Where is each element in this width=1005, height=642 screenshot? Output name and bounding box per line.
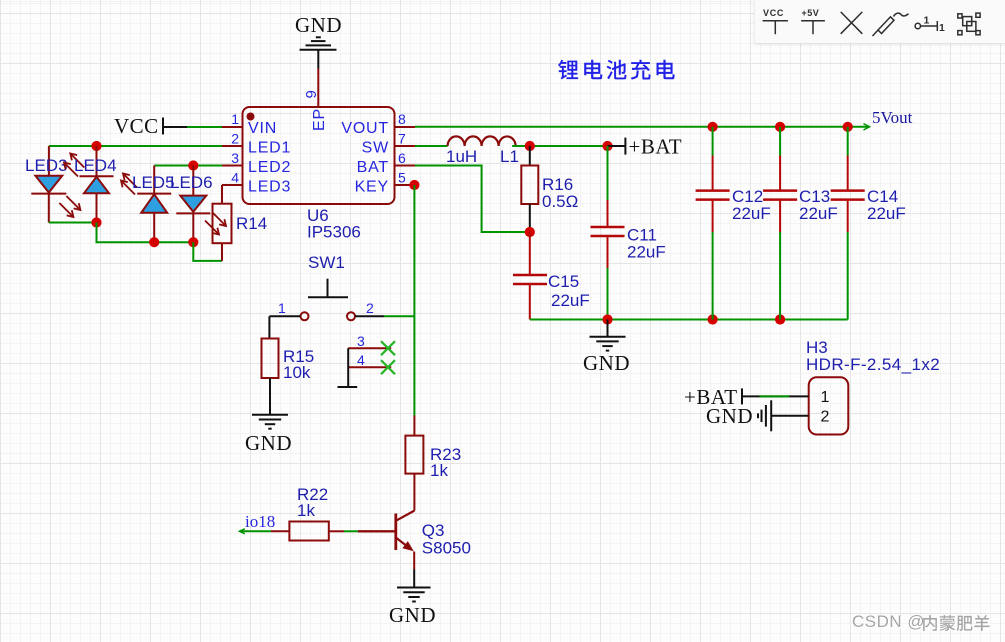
pin 2 LED1 stub — [222, 145, 242, 147]
svg-text:1: 1 — [278, 300, 286, 316]
node junction LED6 bottom — [188, 237, 198, 247]
pin names U6 — [248, 108, 389, 195]
svg-text:LED3: LED3 — [248, 179, 291, 196]
ground GND (EP, flipped) — [300, 37, 337, 68]
wire pin3 to LED5/LED6 — [154, 165, 222, 167]
node junction rail GND — [602, 314, 612, 324]
svg-text:10k: 10k — [283, 363, 311, 382]
svg-text:Q3: Q3 — [422, 521, 445, 540]
pin numbers U6 — [231, 90, 406, 185]
pin stubs U6 — [222, 87, 415, 185]
svg-text:3: 3 — [231, 150, 239, 166]
no-connect X pin4 — [381, 360, 395, 374]
icon delete X — [841, 12, 863, 34]
resistor R15 — [262, 339, 279, 379]
icon net port — [915, 21, 937, 31]
icon pen/probe — [873, 13, 909, 36]
svg-text:VIN: VIN — [248, 120, 277, 137]
H3 pin 1 lead — [742, 395, 809, 397]
node junction rail C13 — [775, 122, 785, 132]
pin 4 LED3 stub — [222, 184, 242, 186]
wire L1 to +BAT — [512, 145, 607, 147]
power flag +BAT — [608, 145, 626, 147]
capacitor C15 — [529, 232, 531, 275]
inductor L1 — [448, 136, 516, 146]
svg-text:GND: GND — [583, 351, 630, 375]
pin 3 LED2 stub — [222, 165, 242, 167]
pin 1 VIN stub — [222, 126, 242, 128]
svg-text:VOUT: VOUT — [341, 120, 389, 137]
pin 8 VOUT stub — [395, 126, 415, 128]
transistor Q3 S8050 — [396, 511, 415, 570]
wire Q3 emitter to GND — [413, 570, 415, 588]
wire pins3-4 tie — [338, 348, 358, 387]
H3 pin 2 lead — [771, 415, 809, 417]
svg-text:LED5: LED5 — [132, 173, 175, 192]
ground GND (R15) — [252, 415, 288, 429]
svg-text:S8050: S8050 — [422, 539, 471, 558]
watermark CJK glyphs — [924, 616, 990, 632]
svg-text:LED3: LED3 — [25, 156, 68, 175]
node junction pin5 KEY — [409, 180, 419, 190]
wire pin4 down — [221, 185, 223, 204]
svg-text:22uF: 22uF — [799, 204, 838, 223]
wire EP to GND — [317, 69, 319, 88]
capacitor C13 — [763, 127, 797, 320]
wire LED3 bottom to LED4 bottom — [49, 222, 97, 224]
wire KEY vertical — [413, 185, 415, 416]
ground GND (rail) — [590, 337, 626, 351]
wire down to lower bus — [97, 223, 194, 243]
net label 5Vout — [864, 124, 870, 130]
wire io18 to R22 — [240, 530, 271, 532]
svg-text:22uF: 22uF — [627, 243, 666, 262]
svg-text:GND: GND — [706, 404, 753, 428]
pin 7 SW stub — [395, 145, 415, 147]
svg-text:GND: GND — [245, 431, 292, 455]
svg-text:2: 2 — [366, 300, 374, 316]
svg-text:1: 1 — [231, 111, 239, 127]
wire R23 to Q3 collector — [413, 474, 415, 511]
node junction R16/C15 — [525, 227, 535, 237]
title text 锂电池充电 — [558, 60, 675, 80]
svg-text:1: 1 — [821, 389, 830, 406]
icon VCC power flag — [763, 21, 788, 35]
pin 5 KEY stub — [395, 184, 415, 186]
svg-text:LED4: LED4 — [74, 156, 117, 175]
node junction LED6 top — [188, 160, 198, 170]
svg-text:1k: 1k — [430, 461, 448, 480]
svg-text:R14: R14 — [236, 214, 267, 233]
node junction R16 top — [525, 141, 535, 151]
svg-text:LED6: LED6 — [170, 173, 213, 192]
svg-text:EP: EP — [311, 108, 328, 131]
resistor R23 — [413, 416, 415, 436]
node junction rail C13 bottom — [775, 314, 785, 324]
svg-text:SW: SW — [362, 140, 389, 157]
svg-text:+BAT: +BAT — [629, 135, 683, 159]
wire VOUT rail — [415, 126, 870, 128]
svg-text:5: 5 — [398, 170, 406, 186]
LED LED4 — [64, 146, 114, 223]
svg-text:4: 4 — [357, 352, 365, 368]
capacitor C11 — [607, 146, 609, 200]
wire bottom rail — [530, 319, 848, 321]
watermark CSDN — [852, 612, 925, 632]
LED LED5 — [121, 166, 171, 243]
svg-text:C15: C15 — [548, 272, 579, 291]
svg-text:6: 6 — [398, 150, 406, 166]
capacitor C14 — [831, 127, 865, 320]
svg-text:BAT: BAT — [357, 159, 389, 176]
capacitor C12 — [696, 127, 730, 320]
svg-text:22uF: 22uF — [732, 204, 771, 223]
svg-text:1k: 1k — [297, 501, 315, 520]
ground GND (Q3) — [397, 588, 431, 602]
wire pin6 BAT to R16 bottom — [415, 166, 530, 233]
svg-text:KEY: KEY — [355, 179, 389, 196]
wire R22 to Q3 base — [329, 530, 344, 532]
wire SW pin1 down to R15 — [268, 316, 270, 338]
toolbar — [754, 0, 1005, 44]
svg-text:SW1: SW1 — [308, 253, 345, 272]
icon symbol wizard — [958, 13, 980, 35]
svg-text:L1: L1 — [500, 147, 519, 166]
op-amp U1 body: IC U6 rectangle — [243, 107, 395, 204]
node junction rail C12 — [708, 122, 718, 132]
svg-text:7: 7 — [398, 131, 406, 147]
svg-text:22uF: 22uF — [867, 204, 906, 223]
svg-text:VCC: VCC — [114, 114, 159, 138]
svg-text:5Vout: 5Vout — [872, 108, 913, 127]
wire SW pin2 to KEY — [384, 315, 414, 317]
svg-text:9: 9 — [303, 90, 320, 98]
node junction LED4 top — [91, 141, 101, 151]
wire R15 to GND — [269, 378, 271, 415]
pin 9 EP stub — [317, 87, 319, 107]
resistor R16 — [529, 146, 531, 166]
SW1 pins 3,4 stubs with no-connect X — [348, 348, 391, 367]
node junction LED4 bottom — [91, 217, 101, 227]
svg-text:1uH: 1uH — [446, 147, 477, 166]
svg-text:22uF: 22uF — [551, 291, 590, 310]
svg-text:8: 8 — [398, 111, 406, 127]
svg-text:HDR-F-2.54_1x2: HDR-F-2.54_1x2 — [806, 355, 940, 374]
svg-text:io18: io18 — [245, 512, 275, 531]
LED LED6 — [176, 166, 210, 243]
pin 6 BAT stub — [395, 165, 415, 167]
svg-text:GND: GND — [295, 13, 342, 37]
node junction rail C14 — [843, 122, 853, 132]
pin 1 indicator dot — [247, 113, 255, 121]
LED LED3 — [31, 146, 80, 223]
svg-text:3: 3 — [357, 333, 365, 349]
svg-text:4: 4 — [231, 170, 239, 186]
ground GND (H3, rotated) — [758, 400, 771, 431]
wire pin2 to LEDs — [49, 145, 222, 147]
node junction LED5 bottom — [149, 237, 159, 247]
svg-text:LED2: LED2 — [248, 159, 291, 176]
svg-text:IP5306: IP5306 — [307, 222, 361, 241]
switch SW1 — [269, 279, 384, 321]
resistor R22 — [289, 522, 328, 541]
node junction +BAT tap — [602, 141, 612, 151]
svg-text:2: 2 — [821, 409, 830, 426]
resistor R14 — [213, 204, 232, 244]
svg-text:GND: GND — [389, 603, 436, 627]
svg-text:LED1: LED1 — [248, 140, 291, 157]
svg-text:0.5Ω: 0.5Ω — [542, 192, 578, 211]
wire rail to GND — [607, 320, 609, 337]
connector H3 — [809, 377, 849, 434]
wire VCC to VIN — [187, 126, 222, 128]
node junction rail C12 bottom — [708, 314, 718, 324]
icon +5V power flag — [801, 21, 825, 35]
svg-text:2: 2 — [231, 131, 239, 147]
wire pin7 to L1 — [415, 145, 448, 147]
no-connect X pin3 — [381, 341, 395, 374]
wire LED6 bottom to R14 bottom — [193, 242, 222, 261]
